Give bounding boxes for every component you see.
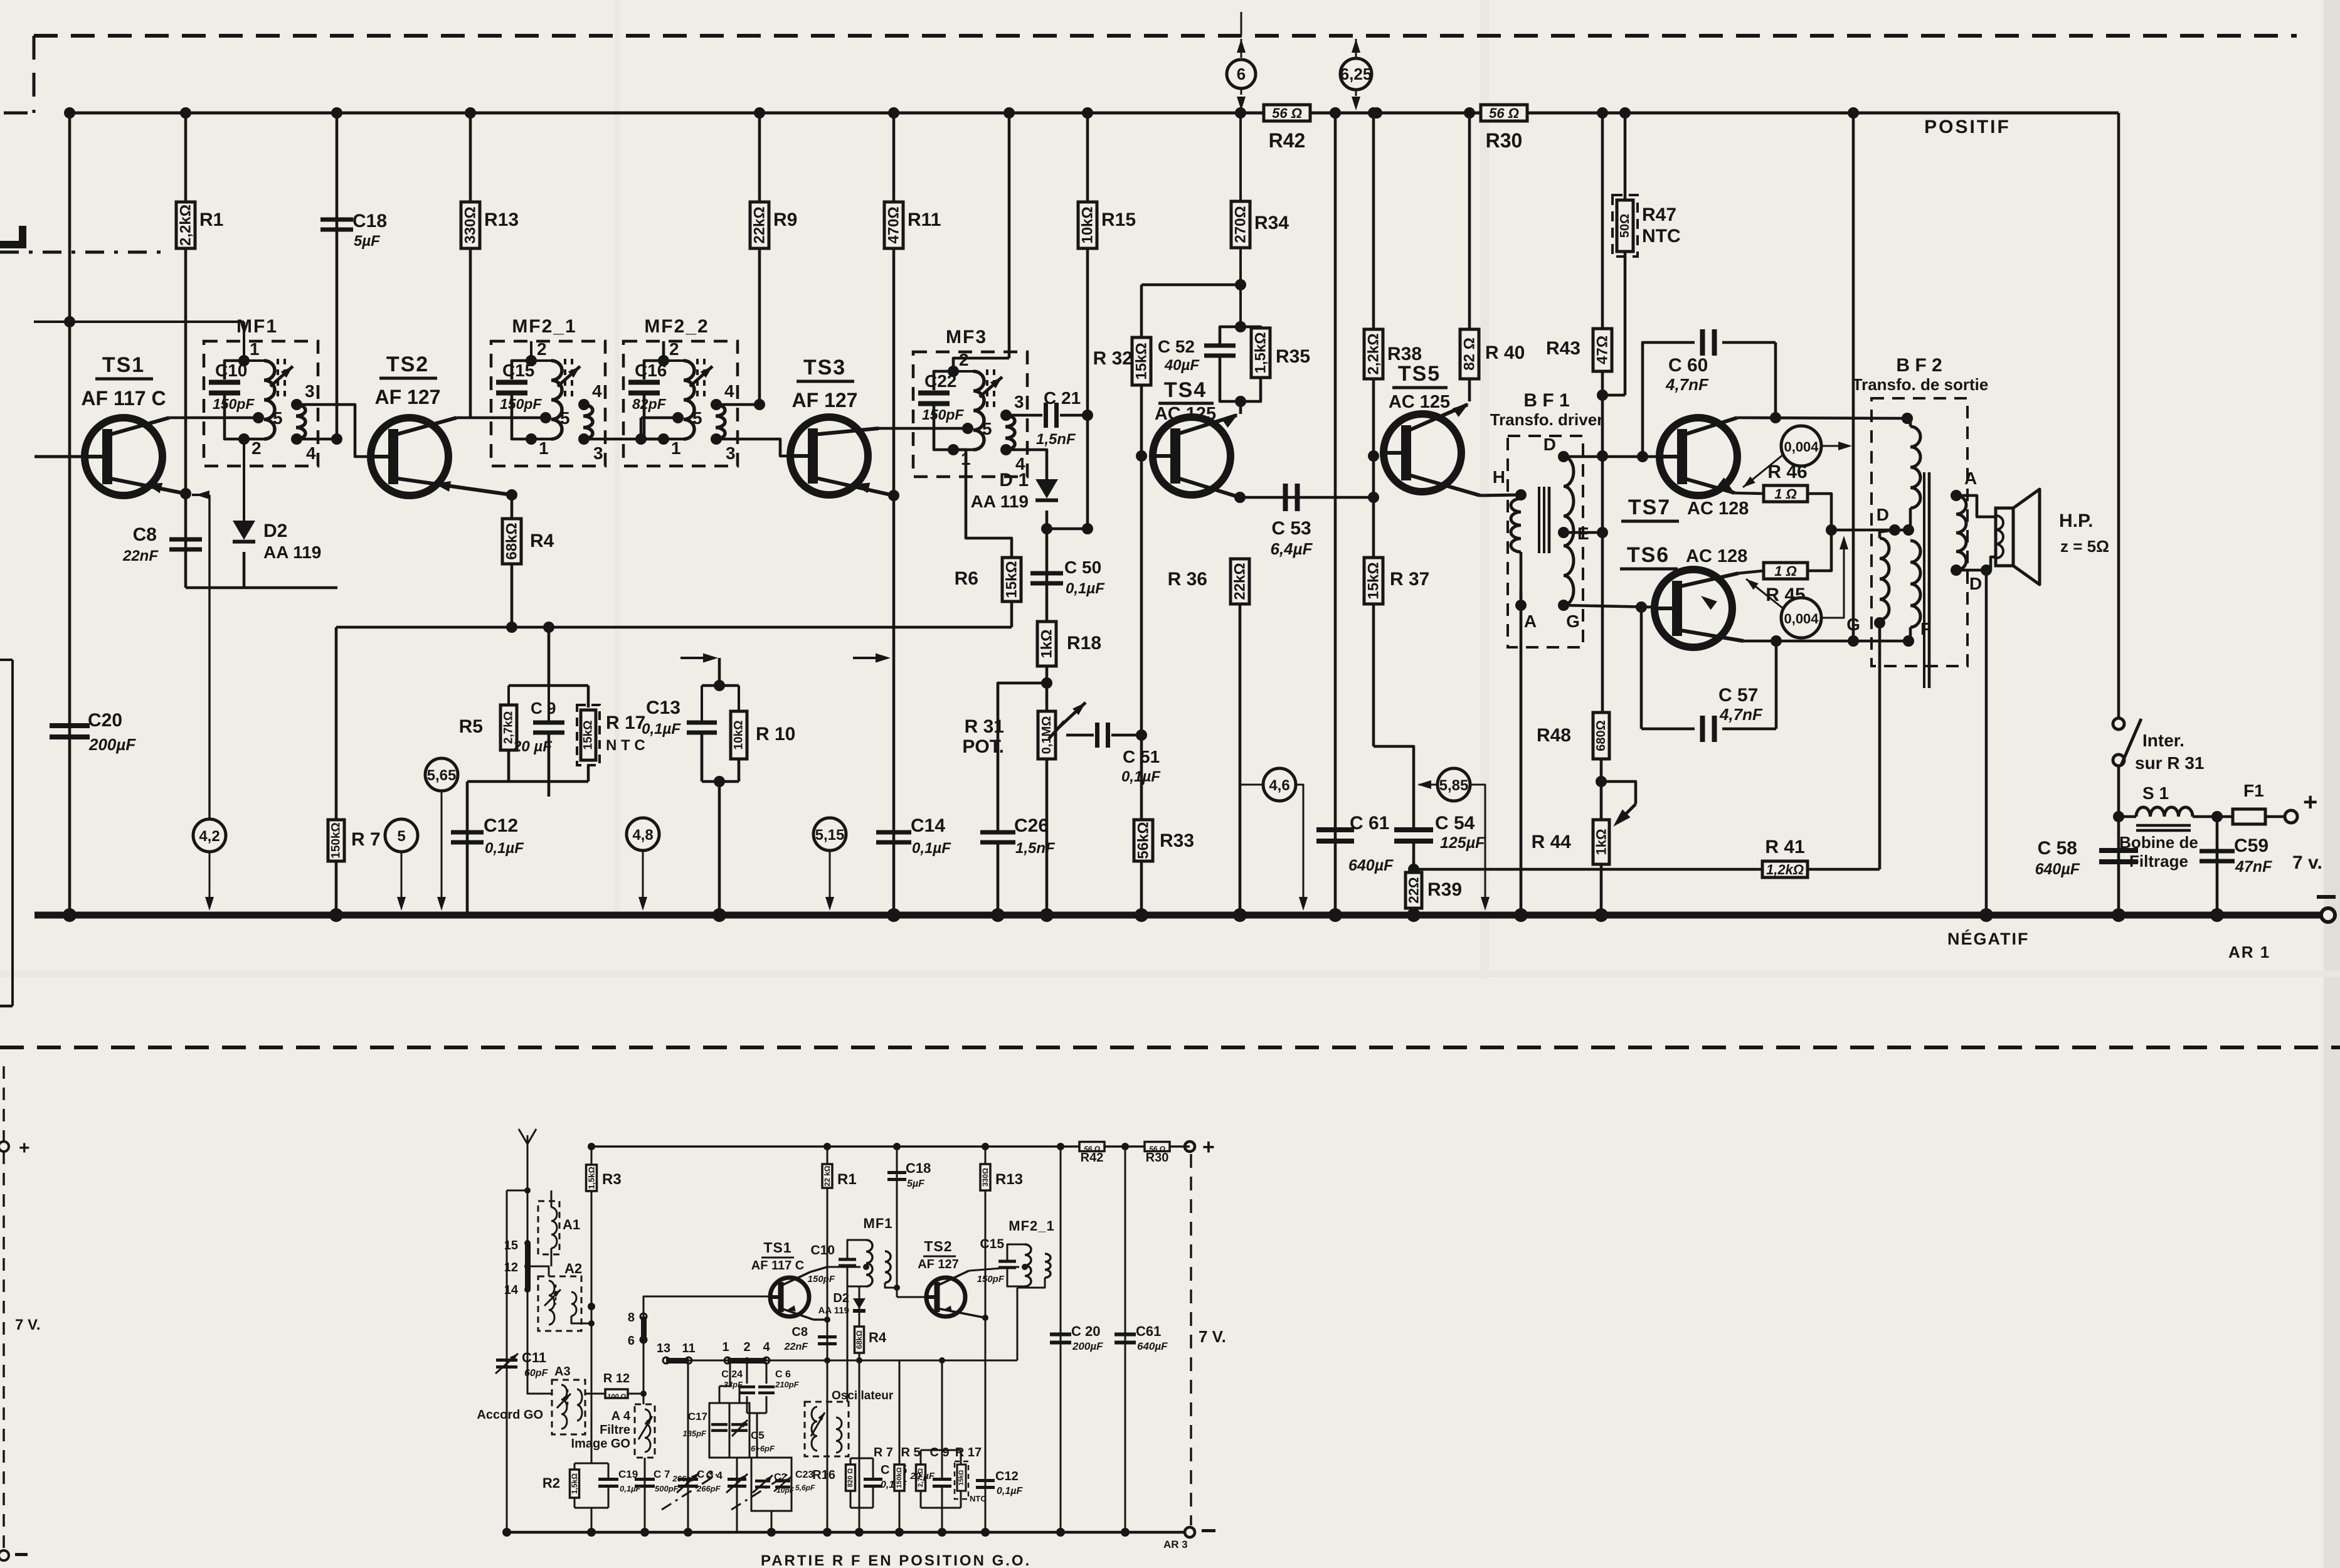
- svg-text:A 4: A 4: [611, 1409, 631, 1423]
- svg-text:B F 1: B F 1: [1523, 390, 1569, 411]
- svg-text:40µF: 40µF: [1164, 357, 1200, 374]
- svg-text:R 12: R 12: [603, 1372, 630, 1385]
- svg-text:AA 119: AA 119: [971, 492, 1029, 511]
- svg-text:2: 2: [959, 350, 969, 369]
- svg-text:5: 5: [560, 408, 570, 428]
- svg-text:AF 127: AF 127: [918, 1258, 959, 1271]
- svg-text:22Ω: 22Ω: [1406, 877, 1422, 903]
- svg-text:5: 5: [982, 419, 992, 438]
- svg-text:R 17: R 17: [955, 1446, 982, 1459]
- svg-text:C61: C61: [1136, 1323, 1161, 1339]
- svg-text:4: 4: [592, 381, 602, 401]
- svg-text:AC 125: AC 125: [1389, 392, 1450, 412]
- svg-text:R4: R4: [869, 1330, 887, 1345]
- svg-text:AA 119: AA 119: [818, 1305, 849, 1316]
- svg-text:7 V.: 7 V.: [1199, 1327, 1226, 1346]
- svg-text:A: A: [1964, 469, 1977, 488]
- svg-text:200µF: 200µF: [1072, 1340, 1103, 1352]
- svg-text:R9: R9: [773, 209, 797, 230]
- svg-text:0,004: 0,004: [1784, 611, 1819, 627]
- svg-text:C10: C10: [810, 1243, 835, 1258]
- svg-text:680Ω: 680Ω: [1594, 720, 1608, 751]
- svg-text:Accord GO: Accord GO: [477, 1408, 543, 1422]
- svg-text:1 Ω: 1 Ω: [1774, 563, 1797, 579]
- svg-text:C10: C10: [215, 361, 247, 380]
- svg-text:C 6: C 6: [775, 1369, 791, 1380]
- svg-text:MF1: MF1: [236, 316, 278, 337]
- svg-text:NTC: NTC: [1642, 226, 1681, 246]
- svg-text:68kΩ: 68kΩ: [504, 522, 521, 559]
- svg-text:Transfo. driver: Transfo. driver: [1490, 410, 1604, 429]
- svg-text:4,8: 4,8: [632, 827, 653, 844]
- svg-text:5,15: 5,15: [815, 827, 845, 844]
- svg-text:640µF: 640µF: [2035, 861, 2080, 878]
- svg-text:R2: R2: [543, 1475, 560, 1491]
- svg-text:R43: R43: [1546, 338, 1580, 359]
- svg-text:150pF: 150pF: [977, 1274, 1005, 1285]
- svg-text:+: +: [19, 1138, 30, 1158]
- svg-text:82pF: 82pF: [632, 396, 667, 412]
- svg-text:12: 12: [504, 1261, 518, 1274]
- svg-text:C 20: C 20: [1071, 1323, 1100, 1339]
- svg-text:22 kΩ: 22 kΩ: [823, 1165, 832, 1186]
- svg-text:640µF: 640µF: [1348, 857, 1394, 874]
- svg-text:R 7: R 7: [874, 1446, 893, 1459]
- svg-text:Image GO: Image GO: [571, 1437, 630, 1451]
- svg-text:C8: C8: [791, 1325, 808, 1339]
- svg-text:5,85: 5,85: [1439, 777, 1469, 794]
- svg-text:C8: C8: [133, 524, 157, 545]
- svg-text:C 57: C 57: [1718, 685, 1758, 706]
- svg-text:R42: R42: [1081, 1151, 1104, 1165]
- svg-text:4: 4: [306, 443, 316, 463]
- svg-text:R13: R13: [995, 1171, 1023, 1188]
- svg-text:z = 5Ω: z = 5Ω: [2060, 537, 2109, 556]
- svg-text:C14: C14: [911, 815, 945, 836]
- svg-text:AF 117 C: AF 117 C: [751, 1259, 804, 1273]
- svg-text:150pF: 150pF: [808, 1274, 835, 1285]
- svg-text:7 v.: 7 v.: [2292, 852, 2322, 873]
- svg-text:6,4µF: 6,4µF: [1270, 539, 1313, 558]
- svg-text:C12: C12: [995, 1470, 1019, 1483]
- svg-text:0,1µF: 0,1µF: [485, 840, 524, 857]
- svg-text:56 Ω: 56 Ω: [1489, 105, 1519, 121]
- svg-text:1: 1: [250, 339, 260, 359]
- svg-text:H.P.: H.P.: [2059, 511, 2093, 531]
- svg-text:D: D: [1969, 574, 1982, 593]
- svg-text:3: 3: [593, 443, 603, 463]
- svg-text:33pF: 33pF: [724, 1380, 743, 1389]
- svg-text:6+6pF: 6+6pF: [751, 1444, 775, 1453]
- svg-text:AF 127: AF 127: [792, 389, 858, 411]
- svg-text:TS2: TS2: [924, 1238, 952, 1254]
- svg-text:AF 127: AF 127: [375, 386, 441, 408]
- svg-text:TS6: TS6: [1627, 543, 1670, 567]
- svg-text:C 53: C 53: [1271, 518, 1311, 539]
- svg-text:R1: R1: [837, 1171, 857, 1188]
- svg-text:8: 8: [628, 1311, 635, 1325]
- svg-text:266pF: 266pF: [672, 1474, 697, 1483]
- svg-text:15kΩ: 15kΩ: [582, 721, 595, 750]
- svg-text:4,2: 4,2: [199, 828, 220, 845]
- svg-text:MF2_2: MF2_2: [644, 316, 709, 337]
- svg-text:C26: C26: [1014, 815, 1049, 836]
- svg-text:20 µF: 20 µF: [909, 1471, 934, 1481]
- svg-text:10kΩ: 10kΩ: [733, 721, 746, 750]
- svg-text:R30: R30: [1486, 129, 1523, 152]
- svg-text:POT.: POT.: [962, 736, 1004, 757]
- svg-text:C15: C15: [980, 1237, 1004, 1251]
- svg-text:R35: R35: [1276, 346, 1310, 367]
- svg-text:R 36: R 36: [1168, 569, 1207, 590]
- svg-text:22kΩ: 22kΩ: [751, 206, 768, 243]
- svg-text:R48: R48: [1537, 725, 1571, 746]
- svg-text:7 V.: 7 V.: [15, 1316, 41, 1333]
- svg-text:R 17: R 17: [606, 712, 645, 733]
- svg-text:2: 2: [743, 1340, 750, 1354]
- svg-text:C 51: C 51: [1123, 747, 1160, 766]
- svg-text:R 5: R 5: [901, 1446, 920, 1459]
- svg-text:TS4: TS4: [1164, 378, 1207, 402]
- svg-text:5: 5: [273, 408, 283, 428]
- svg-text:R42: R42: [1269, 129, 1306, 152]
- svg-text:D: D: [1543, 435, 1556, 454]
- svg-text:C20: C20: [88, 710, 122, 731]
- svg-text:R18: R18: [1067, 633, 1101, 654]
- svg-text:R 37: R 37: [1390, 569, 1429, 590]
- svg-text:R34: R34: [1254, 213, 1289, 233]
- svg-text:TS1: TS1: [102, 353, 145, 377]
- svg-text:R39: R39: [1427, 879, 1462, 900]
- svg-text:15kΩ: 15kΩ: [1133, 342, 1150, 379]
- svg-text:56kΩ: 56kΩ: [1135, 822, 1152, 859]
- svg-text:15kΩ: 15kΩ: [1365, 562, 1382, 599]
- svg-text:R11: R11: [908, 209, 941, 230]
- svg-text:15kΩ: 15kΩ: [958, 1470, 965, 1486]
- svg-text:68kΩ: 68kΩ: [855, 1330, 864, 1349]
- svg-text:R 32: R 32: [1093, 348, 1133, 369]
- svg-text:200µF: 200µF: [88, 735, 136, 754]
- svg-text:+: +: [2303, 788, 2317, 816]
- svg-text:0,004: 0,004: [1784, 439, 1819, 455]
- svg-text:3: 3: [305, 381, 315, 401]
- svg-text:4: 4: [724, 381, 734, 401]
- svg-text:266pF: 266pF: [696, 1484, 721, 1493]
- svg-text:AF 117 C: AF 117 C: [81, 387, 166, 410]
- svg-text:B F 2: B F 2: [1896, 355, 1942, 376]
- svg-text:R1: R1: [199, 209, 223, 230]
- svg-text:C12: C12: [484, 815, 518, 836]
- svg-text:0,1µF: 0,1µF: [1066, 580, 1105, 597]
- svg-text:AR 1: AR 1: [2228, 943, 2270, 961]
- svg-text:4,6: 4,6: [1269, 777, 1289, 794]
- svg-text:2: 2: [251, 438, 262, 458]
- svg-text:150pF: 150pF: [922, 406, 964, 423]
- svg-text:R13: R13: [484, 209, 519, 230]
- svg-text:R15: R15: [1101, 209, 1136, 230]
- svg-text:G: G: [1566, 612, 1580, 631]
- svg-text:G: G: [1846, 615, 1860, 634]
- svg-text:1,5nF: 1,5nF: [1036, 431, 1076, 448]
- svg-text:C17: C17: [688, 1411, 707, 1422]
- svg-text:330Ω: 330Ω: [462, 206, 479, 243]
- svg-text:NÉGATIF: NÉGATIF: [1947, 929, 2030, 948]
- svg-text:330Ω: 330Ω: [981, 1168, 990, 1187]
- svg-text:C 61: C 61: [1350, 813, 1389, 834]
- svg-text:C 58: C 58: [2038, 838, 2077, 859]
- svg-text:270Ω: 270Ω: [1232, 206, 1249, 243]
- svg-text:1kΩ: 1kΩ: [1594, 829, 1609, 855]
- svg-text:TS5: TS5: [1398, 362, 1441, 386]
- svg-text:TS3: TS3: [803, 356, 846, 379]
- svg-text:R3: R3: [602, 1171, 622, 1188]
- svg-text:2,2kΩ: 2,2kΩ: [1365, 334, 1382, 375]
- svg-text:10kΩ: 10kΩ: [1079, 206, 1096, 243]
- svg-text:82 Ω: 82 Ω: [1461, 337, 1478, 371]
- svg-text:D: D: [1877, 505, 1889, 524]
- svg-text:1kΩ: 1kΩ: [1039, 630, 1056, 659]
- svg-text:0,1µF: 0,1µF: [997, 1486, 1023, 1496]
- svg-text:A3: A3: [554, 1365, 571, 1379]
- svg-text:D2: D2: [263, 521, 287, 541]
- svg-text:11: 11: [682, 1342, 695, 1355]
- svg-text:13: 13: [657, 1342, 670, 1355]
- svg-text:Oscillateur: Oscillateur: [832, 1389, 894, 1402]
- svg-text:1: 1: [722, 1340, 729, 1354]
- svg-text:S 1: S 1: [2142, 783, 2169, 803]
- svg-text:640µF: 640µF: [1137, 1340, 1168, 1352]
- svg-text:20 µF: 20 µF: [512, 738, 553, 755]
- svg-text:R30: R30: [1146, 1151, 1169, 1165]
- svg-text:10pF: 10pF: [776, 1486, 795, 1495]
- svg-text:820 Ω: 820 Ω: [847, 1468, 854, 1487]
- svg-text:A1: A1: [563, 1217, 580, 1232]
- svg-text:C 9: C 9: [929, 1446, 949, 1459]
- svg-text:A2: A2: [564, 1261, 582, 1276]
- svg-text:C 54: C 54: [1435, 813, 1475, 834]
- svg-text:sur R 31: sur R 31: [2135, 753, 2205, 773]
- svg-text:14: 14: [504, 1283, 519, 1297]
- svg-text:Transfo. de sortie: Transfo. de sortie: [1853, 375, 1989, 394]
- svg-text:C15: C15: [502, 361, 534, 380]
- svg-text:NTC: NTC: [970, 1494, 987, 1503]
- svg-text:15kΩ: 15kΩ: [1003, 561, 1020, 598]
- svg-text:1: 1: [539, 438, 549, 458]
- svg-text:PARTIE R F EN POSITION: PARTIE R F EN POSITION G.O.: [761, 1552, 1031, 1568]
- svg-text:1,2kΩ: 1,2kΩ: [1766, 862, 1804, 877]
- svg-text:D 1: D 1: [999, 470, 1029, 490]
- svg-text:C59: C59: [2234, 835, 2269, 856]
- svg-text:2: 2: [537, 339, 547, 359]
- svg-text:C 9: C 9: [531, 699, 556, 718]
- svg-text:150kΩ: 150kΩ: [330, 822, 343, 859]
- svg-text:0,1µF: 0,1µF: [642, 721, 681, 738]
- svg-text:C18: C18: [906, 1160, 931, 1176]
- svg-text:4,7nF: 4,7nF: [1665, 375, 1709, 394]
- svg-text:185pF: 185pF: [682, 1429, 707, 1438]
- svg-text:R 41: R 41: [1765, 837, 1804, 857]
- svg-text:C13: C13: [646, 697, 680, 718]
- svg-text:R4: R4: [530, 531, 554, 551]
- svg-text:5,65: 5,65: [427, 767, 457, 784]
- svg-text:5,6pF: 5,6pF: [795, 1483, 815, 1492]
- svg-text:Filtrage: Filtrage: [2129, 852, 2188, 871]
- svg-text:1,5kΩ: 1,5kΩ: [587, 1167, 596, 1189]
- svg-text:TS7: TS7: [1628, 495, 1671, 519]
- svg-text:150pF: 150pF: [500, 396, 542, 412]
- svg-text:470Ω: 470Ω: [886, 206, 903, 243]
- svg-text:MF2_1: MF2_1: [1009, 1218, 1054, 1234]
- svg-text:C11: C11: [522, 1350, 546, 1365]
- svg-text:5µF: 5µF: [907, 1179, 925, 1189]
- svg-text:150kΩ: 150kΩ: [896, 1467, 903, 1488]
- svg-text:3: 3: [726, 443, 736, 463]
- svg-text:MF3: MF3: [946, 327, 987, 347]
- svg-text:0,1µF: 0,1µF: [912, 840, 951, 857]
- svg-text:500pF: 500pF: [655, 1484, 679, 1493]
- svg-text:AC 128: AC 128: [1687, 499, 1749, 519]
- svg-text:50Ω: 50Ω: [1618, 214, 1632, 238]
- svg-text:POSITIF: POSITIF: [1924, 117, 2011, 137]
- svg-text:3: 3: [1014, 392, 1024, 411]
- svg-text:F1: F1: [2243, 781, 2264, 800]
- svg-text:2: 2: [669, 339, 679, 359]
- svg-text:47nF: 47nF: [2235, 858, 2272, 876]
- svg-text:0,1µF: 0,1µF: [1121, 768, 1161, 785]
- svg-text:AC 125: AC 125: [1155, 404, 1216, 424]
- svg-text:R 10: R 10: [756, 724, 795, 744]
- svg-text:R 44: R 44: [1532, 832, 1572, 852]
- svg-text:5: 5: [692, 408, 702, 428]
- svg-text:2,2kΩ: 2,2kΩ: [177, 204, 194, 246]
- svg-text:4,7nF: 4,7nF: [1719, 705, 1763, 724]
- svg-text:C 21: C 21: [1044, 388, 1081, 408]
- svg-text:22nF: 22nF: [122, 548, 159, 564]
- svg-text:R 31: R 31: [965, 716, 1004, 737]
- svg-text:6: 6: [1237, 65, 1246, 83]
- svg-text:C 50: C 50: [1064, 558, 1101, 577]
- svg-text:A: A: [1524, 612, 1537, 631]
- svg-text:22nF: 22nF: [784, 1342, 809, 1352]
- svg-text:N T C: N T C: [606, 737, 645, 754]
- svg-text:6,25: 6,25: [1340, 65, 1372, 83]
- svg-text:MF2_1: MF2_1: [512, 316, 576, 337]
- svg-text:AA 119: AA 119: [263, 543, 321, 562]
- svg-text:C23: C23: [795, 1470, 813, 1480]
- svg-text:AR 3: AR 3: [1163, 1539, 1188, 1550]
- svg-text:C 60: C 60: [1668, 355, 1708, 376]
- svg-text:R47: R47: [1642, 204, 1676, 225]
- svg-text:15: 15: [504, 1239, 518, 1253]
- svg-text:C22: C22: [924, 371, 956, 391]
- svg-text:C 7: C 7: [654, 1468, 670, 1480]
- svg-text:150pF: 150pF: [213, 396, 255, 412]
- svg-text:C16: C16: [635, 361, 667, 380]
- svg-text:MF1: MF1: [864, 1216, 893, 1231]
- svg-text:1,5kΩ: 1,5kΩ: [1252, 332, 1269, 374]
- svg-text:1: 1: [671, 438, 681, 458]
- svg-text:1,5kΩ: 1,5kΩ: [570, 1473, 579, 1494]
- svg-text:R 7: R 7: [351, 829, 381, 850]
- svg-text:22kΩ: 22kΩ: [1232, 563, 1249, 600]
- svg-text:125µF: 125µF: [1440, 834, 1485, 852]
- svg-text:R16: R16: [812, 1468, 835, 1482]
- svg-text:5: 5: [397, 828, 405, 845]
- svg-text:R33: R33: [1160, 830, 1194, 851]
- svg-text:47Ω: 47Ω: [1594, 336, 1611, 364]
- svg-text:1,5nF: 1,5nF: [1015, 840, 1056, 857]
- svg-text:1 Ω: 1 Ω: [1774, 486, 1797, 502]
- svg-text:R6: R6: [955, 568, 978, 589]
- svg-text:210pF: 210pF: [775, 1380, 800, 1389]
- svg-text:AC 128: AC 128: [1686, 546, 1747, 566]
- svg-text:56 Ω: 56 Ω: [1272, 105, 1302, 121]
- svg-text:H: H: [1493, 467, 1505, 487]
- svg-text:R5: R5: [459, 716, 483, 737]
- svg-text:C 24: C 24: [721, 1369, 743, 1380]
- svg-text:Filtre: Filtre: [600, 1423, 630, 1437]
- svg-text:Inter.: Inter.: [2142, 731, 2184, 750]
- svg-text:100 Ω: 100 Ω: [607, 1393, 626, 1401]
- svg-text:+: +: [1202, 1135, 1215, 1159]
- svg-text:C 52: C 52: [1158, 337, 1195, 356]
- svg-text:TS2: TS2: [386, 352, 429, 376]
- svg-text:6: 6: [628, 1334, 635, 1348]
- svg-text:C18: C18: [352, 211, 387, 231]
- svg-text:5µF: 5µF: [354, 233, 381, 250]
- svg-text:R 40: R 40: [1485, 342, 1525, 363]
- svg-text:4: 4: [763, 1340, 770, 1354]
- svg-text:TS1: TS1: [763, 1239, 791, 1256]
